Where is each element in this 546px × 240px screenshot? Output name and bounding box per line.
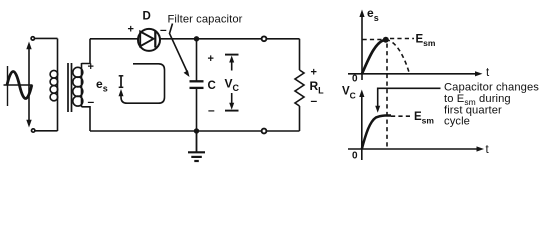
dashed: descending quarter cosine [386,40,410,74]
capacitor C [190,39,204,131]
curve: e_s quarter sine [362,40,386,74]
curve: V_C charging [362,116,391,150]
AC source double arrow [26,42,31,128]
leader arrow to capacitor [170,24,190,78]
transformer T1 core [68,63,72,112]
terminal bottom-left [32,129,35,132]
diode D [138,29,160,51]
dashed: vertical timing line [386,44,388,150]
top graph x-axis [348,71,483,76]
svg-text:D: D [143,11,151,23]
junction: capacitor top node [194,36,199,41]
svg-text:VC: VC [342,86,356,101]
wire: secondary to diode (top wire left) [90,38,139,40]
AC source sine symbol [4,66,33,106]
svg-text:–: – [311,94,318,108]
svg-text:cycle: cycle [444,115,470,127]
svg-text:–: – [160,23,167,37]
svg-text:Filter capacitor: Filter capacitor [168,14,243,26]
svg-text:0: 0 [352,74,358,85]
svg-text:C: C [208,80,216,92]
transformer T1 secondary winding [73,39,90,131]
wire: resistor to bottom-right corner [299,106,301,131]
top graph y-axis [359,10,364,81]
svg-text:t: t [486,144,490,156]
wire: top-left terminal to primary [35,37,58,39]
svg-text:0: 0 [352,151,358,162]
bottom graph y-axis [359,90,364,161]
svg-text:–: – [88,95,95,109]
current loop I [119,64,165,103]
bottom graph x-axis [348,146,484,151]
svg-text:+: + [208,53,214,65]
svg-text:es: es [367,6,379,23]
leader: capacitor-changes note arrow [375,88,440,113]
dashed: horizontal to peak [363,39,384,41]
wire: diode to top-right corner [161,38,300,40]
svg-text:Esm: Esm [414,111,434,126]
note text: Capacitor changes ... [444,82,539,128]
svg-text:+: + [128,24,134,36]
transformer T1 primary winding [50,39,58,132]
label: I [119,76,124,88]
dashed: peak to E_sm label [390,38,414,40]
ground [188,131,205,161]
svg-text:–: – [208,103,215,117]
svg-text:Capacitor changes: Capacitor changes [444,82,539,94]
wire: bottom-left terminal to primary [35,130,57,132]
junction: ground node [194,128,199,133]
svg-text:+: + [311,67,317,79]
svg-text:es: es [96,77,108,94]
svg-text:t: t [486,67,490,79]
terminal top-left [31,37,34,40]
peak dot [383,37,389,43]
svg-text:VC: VC [225,77,240,94]
wire: right edge down to resistor [299,39,301,70]
V_C dimension arrows [225,55,239,111]
terminal on top wire [262,36,267,41]
svg-text:+: + [88,61,94,73]
svg-text:Esm: Esm [416,34,436,49]
bottom wire [90,130,300,132]
dashed: plateau to E_sm label [391,115,412,117]
terminal on bottom wire [262,129,267,134]
resistor R_L [295,70,304,106]
